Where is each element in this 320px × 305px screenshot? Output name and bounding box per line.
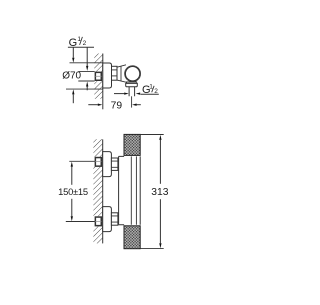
- outlet centerline extension: [131, 96, 133, 107]
- arrow down to O70 top extension: [72, 47, 74, 62]
- top nipple centerline: [95, 160, 101, 162]
- wall (side view) hatched band: [93, 139, 102, 243]
- underline of G1/2 (top-left): [68, 46, 94, 48]
- label G1/2 (top-left): [69, 36, 87, 49]
- escutcheon (top view): [103, 63, 112, 88]
- top union: nut facet lines: [111, 161, 118, 167]
- top knurled handle: [124, 134, 140, 155]
- handle circle (top view): [125, 66, 140, 81]
- O70 bottom extension line: [66, 88, 103, 90]
- slash of G1/2 (right): [152, 86, 154, 93]
- arrow down to nipple top extension: [86, 47, 88, 71]
- underline of G1/2 (right): [141, 93, 159, 95]
- label 313: [151, 187, 168, 198]
- slash of G1/2 (top-left): [80, 37, 83, 45]
- top union: nut: [111, 158, 118, 170]
- svg-text:313: 313: [151, 187, 168, 198]
- nut facet line lower (top view): [112, 75, 118, 77]
- nipple top extension line: [78, 71, 94, 73]
- knurled rim ticks on handle circle: [125, 66, 141, 82]
- right-pointing side: label G1/2 (right): [142, 84, 158, 97]
- outlet pipe (top view): [129, 87, 135, 97]
- bottom union: escutcheon: [103, 207, 112, 232]
- top union: escutcheon: [103, 152, 112, 177]
- O70 top extension line: [70, 62, 103, 64]
- wall face line (side view): [102, 139, 104, 243]
- 79 dimension left arrow: [88, 104, 102, 106]
- 313 top extension line: [140, 134, 164, 136]
- nut facet line upper (top view): [112, 69, 118, 71]
- wall (top view) hatched band: [94, 54, 103, 99]
- 150 top extension line: [69, 160, 94, 162]
- union nut (top view): [112, 66, 118, 80]
- top union: wall nipple: [95, 158, 101, 167]
- outlet collar lower (top view): [126, 83, 138, 86]
- 313 bottom extension line: [140, 248, 164, 250]
- body tube (side view): [119, 156, 141, 224]
- nipple bottom extension line: [78, 80, 94, 82]
- bottom knurled handle: [124, 226, 140, 249]
- 150 bottom extension line: [66, 221, 95, 223]
- bottom union: nut facet lines: [111, 216, 118, 222]
- valve cone outline (top view): [117, 65, 126, 82]
- arrow up to O70 bottom extension: [72, 89, 74, 103]
- label O70: [62, 71, 81, 82]
- outlet collar upper (top view): [127, 82, 137, 84]
- svg-text:79: 79: [111, 100, 123, 111]
- bottom union: wall nipple: [95, 217, 101, 226]
- label 150+-15: [58, 186, 88, 197]
- wall face line (top view): [102, 54, 104, 110]
- 150 dimension line with arrows: [71, 162, 73, 222]
- bottom nipple centerline: [95, 220, 101, 222]
- svg-text:2: 2: [83, 40, 87, 47]
- arrow up to nipple bottom extension: [86, 82, 88, 91]
- body shading lines: [131, 156, 136, 224]
- wall nipple (top view): [95, 72, 101, 80]
- arrow pointing left to outlet: [136, 92, 141, 94]
- 79 dimension right arrow: [132, 104, 141, 106]
- bottom union: nut: [111, 213, 118, 225]
- nipple centerline (top view): [95, 75, 101, 77]
- 313 dimension line with arrows: [159, 135, 161, 248]
- svg-text:Ø70: Ø70: [62, 71, 81, 82]
- label 79: [111, 100, 123, 111]
- G1/2 dimension arrows at outlet: [114, 92, 129, 94]
- svg-text:150±15: 150±15: [58, 186, 88, 197]
